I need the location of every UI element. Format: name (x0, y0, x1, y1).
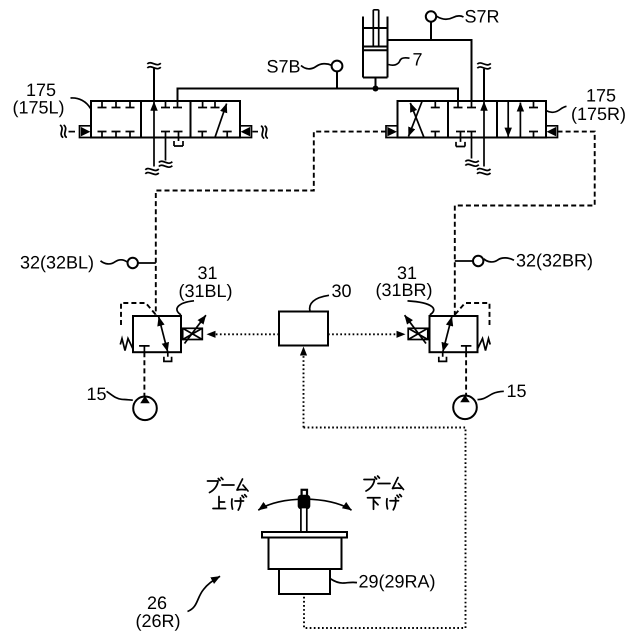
signal arrow 29 to 30 (303, 355, 305, 428)
leader 31BR (408, 301, 434, 315)
valve 175L box1 blocked ports (98, 101, 135, 108)
svg-text:30: 30 (332, 281, 352, 301)
wire down from break to 175L (153, 69, 155, 102)
wavy break below 175R arrow line (477, 169, 491, 175)
valve 175R box1 blocked ports (431, 101, 440, 138)
valve 31BL spring (120, 339, 133, 351)
dashed line 31BL to pump (143, 352, 145, 396)
cylinder 7 body (363, 17, 388, 78)
svg-text:32(32BL): 32(32BL) (20, 253, 94, 273)
cylinder 7 rod (373, 10, 378, 47)
joystick 29 top plate (262, 532, 347, 538)
valve 175R box3 down-arrow (507, 101, 509, 137)
joystick 29 stick tip (302, 490, 307, 497)
valve 175L right pilot dash (253, 131, 259, 133)
electric signal path 29 to 30 (304, 428, 466, 629)
valve 31BR spring (478, 339, 491, 351)
valve 31BR double arrow (443, 317, 452, 352)
pump 15 right (453, 396, 477, 420)
node S7R circle (426, 11, 436, 21)
svg-text:26: 26 (147, 593, 167, 613)
junction dot at cylinder bottom (373, 86, 379, 92)
svg-text:S7B: S7B (267, 57, 301, 77)
valve 175L box2 blocked ports top (161, 101, 182, 108)
svg-text:175: 175 (586, 86, 616, 106)
wire cylinder bottom (375, 78, 377, 89)
drain symbol under 175L (174, 141, 183, 146)
wavy break above valve 175L (147, 63, 161, 69)
svg-text:(31BR): (31BR) (376, 280, 433, 300)
valve 175R left pilot box (386, 126, 398, 138)
joystick 29 rod (301, 508, 307, 533)
svg-text:(26R): (26R) (136, 611, 181, 631)
valve 175L right pilot triangle (241, 127, 251, 136)
valve 175L dividers (141, 101, 191, 138)
wavy break below 175R port (465, 160, 479, 166)
svg-text:(175L): (175L) (13, 98, 65, 118)
wavy break above valve 175R (477, 63, 491, 69)
node 32BR circle (473, 256, 483, 266)
valve 31BR drain (439, 352, 447, 361)
joystick 29 knob (298, 495, 311, 509)
valve 175L right pilot box (240, 126, 252, 138)
leader 30 (310, 295, 329, 311)
svg-text:(175R): (175R) (571, 104, 626, 124)
label boom-lower (ブーム下げ) (364, 476, 404, 510)
valve 175R box2 up-arrow (483, 102, 485, 167)
node 32BL circle (128, 258, 138, 268)
arrow 26 to joystick (188, 576, 221, 611)
leader to 7 (389, 58, 410, 65)
valve 175R outer box (398, 101, 547, 138)
valve 175R box2 blocked ports top (454, 101, 477, 108)
leader S7R (437, 16, 464, 19)
svg-text:S7R: S7R (465, 7, 500, 27)
valve 175R right pilot box (546, 126, 558, 138)
valve 175L left pilot triangle (81, 127, 91, 136)
leader 15 left (107, 391, 133, 400)
valve 175L left pilot box (80, 126, 92, 138)
wire rod-side port to valve 175R (388, 40, 472, 101)
wavy break left of 175L (61, 125, 67, 137)
leader 29 (330, 579, 357, 584)
svg-text:32(32BR): 32(32BR) (516, 251, 593, 271)
valve 175L outer box (91, 101, 240, 138)
valve 175R box1 crossed arrows (409, 102, 423, 137)
leader 32BR (484, 258, 514, 262)
wire S7B rail (178, 89, 459, 102)
pump 15 left (133, 397, 157, 421)
valve 31BR body (430, 316, 478, 352)
svg-text:7: 7 (413, 50, 423, 70)
valve 175L box3 diagonal arrow (215, 104, 227, 138)
valve 31BL double arrow (159, 317, 168, 352)
leader 175L (71, 98, 91, 109)
pilot line 31BL to 175R left pilot (156, 132, 386, 316)
valve 175R right pilot triangle (547, 127, 557, 136)
wire 32BR tap (455, 260, 473, 262)
wire S7B drop (336, 71, 338, 88)
wavy break right of 175L (262, 126, 268, 138)
solenoid of 31BR (408, 328, 428, 339)
valve 31BR feedback dashed line (455, 303, 489, 325)
svg-text:15: 15 (507, 381, 527, 401)
valve 31BL feedback dashed line (121, 303, 155, 325)
leader 31BL (177, 301, 194, 315)
solenoid of 31BL (183, 328, 203, 339)
wire 32BL tap (138, 262, 156, 264)
drain symbol under 175R (456, 142, 465, 147)
cylinder 7 piston (363, 47, 388, 51)
valve 175R box3 up-arrow (519, 103, 521, 138)
valve 31BR bottom port (461, 346, 472, 352)
svg-text:29(29RA): 29(29RA) (359, 572, 436, 592)
signal arrow 30 to 31BL (215, 333, 279, 335)
leader 175R (547, 106, 567, 112)
wavy break below 175L arrow line (145, 169, 159, 175)
valve 175L box3 ports (198, 101, 232, 138)
dashed line 31BR to pump (465, 352, 467, 395)
leader 32BL (101, 260, 128, 264)
wire S7R drop (430, 22, 432, 40)
valve 31BL body (133, 316, 181, 352)
svg-text:31: 31 (198, 263, 218, 283)
valve 175R dividers (448, 101, 497, 138)
controller 30 box (279, 312, 328, 346)
wavy break below 175L port (159, 161, 173, 167)
valve 175L box2 ports bottom (161, 132, 183, 161)
node S7B circle (332, 61, 343, 72)
joystick 29 lower body (279, 569, 330, 594)
valve 175R box2 ports bottom (456, 132, 476, 159)
valve 175R box3 blocked ports (529, 101, 538, 138)
svg-text:(31BL): (31BL) (179, 281, 233, 301)
leader S7B (301, 64, 332, 69)
solenoid 31BR proportional arrow (405, 315, 426, 343)
valve 175L left pilot dash (69, 131, 76, 133)
joystick 29 swing arc arrows (258, 499, 351, 510)
signal arrow 30 to 31BR (328, 333, 397, 335)
joystick 29 upper body (269, 538, 342, 570)
pilot line 31BR to 175R right pilot (455, 132, 595, 316)
wire down from break to 175R (483, 69, 485, 101)
leader 15 right (478, 391, 504, 399)
solenoid 31BL proportional arrow (185, 315, 206, 343)
valve 175R left pilot triangle (387, 127, 397, 136)
label boom-raise (ブーム上げ) (208, 478, 249, 511)
svg-text:15: 15 (87, 384, 107, 404)
valve 31BL bottom port (139, 346, 150, 352)
valve 31BL drain (164, 352, 172, 361)
valve 175L box2 up-arrow (153, 102, 155, 167)
